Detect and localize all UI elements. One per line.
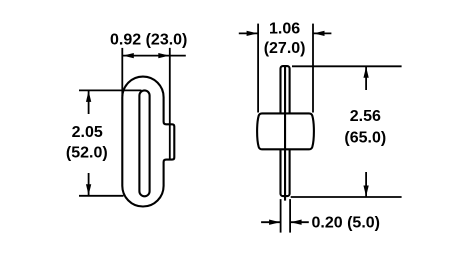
2.56 dimension line upper segment with up arrow [365,67,367,90]
1.06 dimension arrows (outside, pointing inward) [239,32,258,34]
tab inner bend line / right extension line of 0.92 dim [169,48,171,159]
1.06 left extension line (down to barrel top) [257,24,259,113]
2.05 dimension line lower segment with down arrow [88,173,90,195]
2.56 dimension line lower segment with down arrow [365,172,367,197]
inner slot (capsule) [139,90,149,196]
1.06 right extension line (down to barrel top) [312,24,314,113]
outer stadium body outline with right-side tab [122,77,174,207]
0.20 left extension line [280,199,282,233]
barrel (bead) over pin [257,113,314,149]
left extension line of 0.92 dim (collinear with part left side) [121,48,123,96]
2.56 top extension line [292,65,402,67]
svg-text:2.05: 2.05 [72,124,103,141]
pin outline (rounded ends) [281,66,290,196]
svg-text:(27.0): (27.0) [264,40,306,57]
2.05 bottom extension line [79,195,124,197]
svg-text:0.20 (5.0): 0.20 (5.0) [312,214,380,231]
0.20 right extension line [289,199,291,233]
svg-text:(52.0): (52.0) [66,144,108,161]
svg-text:2.56: 2.56 [350,108,381,125]
svg-text:(65.0): (65.0) [344,129,386,146]
2.05 top extension line [79,89,142,91]
svg-text:1.06: 1.06 [269,21,300,38]
pin center line [284,66,286,201]
svg-text:0.92 (23.0): 0.92 (23.0) [110,32,187,49]
0.92 dimension line with outward arrows and right tail [122,55,186,57]
2.56 bottom extension line [291,196,402,198]
0.20 dimension arrows (outside, pointing inward) [261,221,280,223]
2.05 dimension line upper segment with up arrow [88,91,90,114]
